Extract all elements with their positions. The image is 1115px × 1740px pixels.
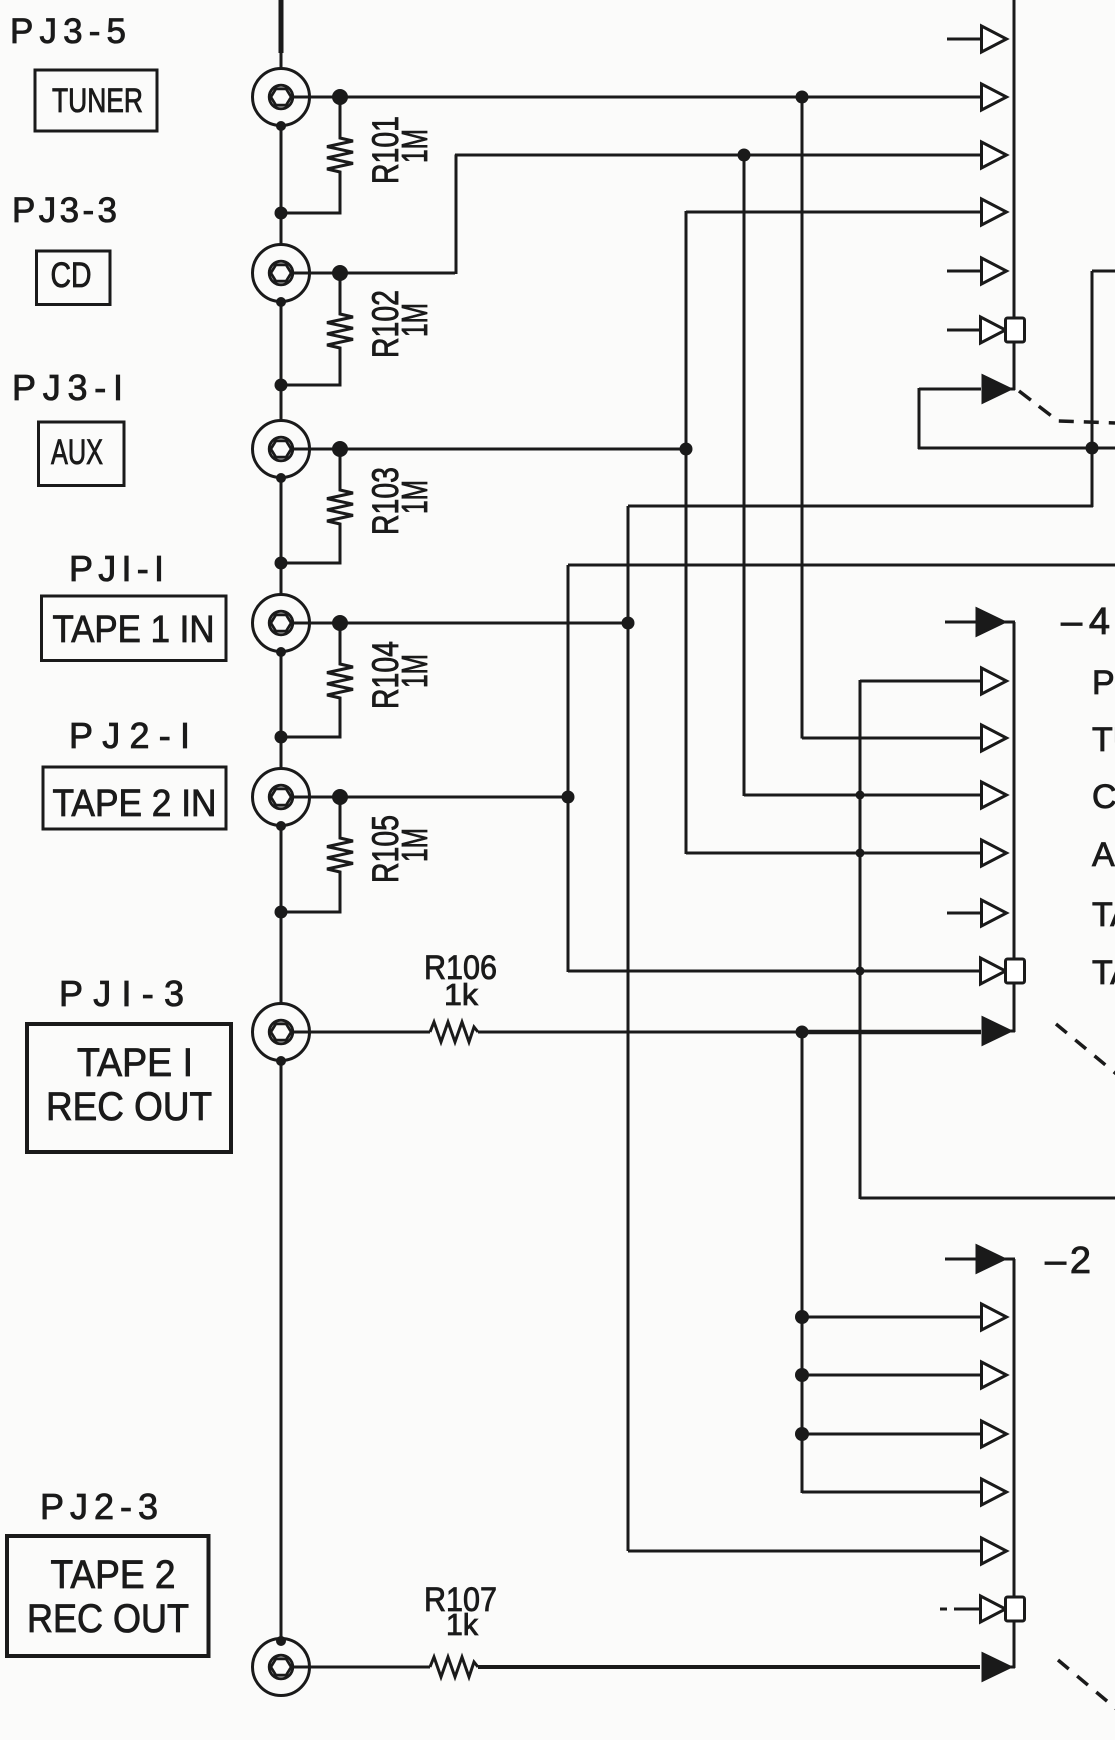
wire AUX hot: [292, 448, 687, 451]
wire AUX riser x=686: [685, 211, 688, 854]
resistor R102 1M: [282, 279, 353, 385]
S1-2 wiper arrow: [983, 1654, 1010, 1680]
junction S1-2 contact 3: [795, 1368, 809, 1382]
RCA jack PJ2-1 TAPE 2 IN: [253, 769, 311, 826]
wire TAPE 1 IN hot: [292, 622, 629, 625]
wire S1-4 wiper stub: [1003, 1030, 1015, 1033]
svg-text:REC OUT: REC OUT: [27, 1597, 189, 1641]
wire S1 wiper loop vertical: [918, 388, 921, 449]
wire TAPE2 to S1-4 square contact: [568, 970, 982, 973]
S1 fixed contact y=271: [982, 258, 1007, 284]
junction CD line: [738, 149, 751, 162]
svg-text:TAPE 2 IN: TAPE 2 IN: [53, 783, 217, 825]
S1-4 wiper arrow: [983, 1018, 1010, 1044]
wire CD riser x=744: [743, 154, 746, 796]
box AUX: [39, 422, 125, 486]
svg-text:PHONO: PHONO: [1092, 664, 1115, 702]
svg-text:1M: 1M: [394, 654, 435, 688]
svg-text:1k: 1k: [444, 977, 479, 1012]
ground bus segment: [280, 826, 283, 1004]
junction record bus: [796, 1026, 809, 1039]
wire CD hot: [292, 272, 455, 275]
switch S1-4 bus to wiper: [1013, 983, 1016, 1032]
RCA jack PJ3-1 AUX: [253, 421, 311, 478]
junction jack PJ3-3 ground: [276, 297, 286, 307]
S1-2 fixed contact y=1317: [982, 1304, 1007, 1330]
svg-text:–2: –2: [1045, 1240, 1091, 1282]
junction jack PJ2-1 ground: [276, 821, 286, 831]
wire TAPE1 REC OUT hot: [292, 1031, 430, 1034]
junction jack PJ2-3 ground: [276, 1636, 286, 1646]
junction x=860 TAPE2 row: [856, 967, 865, 976]
svg-text:PJ3-5: PJ3-5: [10, 12, 126, 51]
svg-text:TUNER: TUNER: [1092, 721, 1115, 759]
svg-text:TUNER: TUNER: [52, 82, 143, 120]
junction TAPE1-IN line: [622, 617, 635, 630]
resistor R106 1k: [430, 1022, 478, 1042]
svg-text:PJI-3: PJI-3: [59, 973, 184, 1014]
junction S1 wiper line: [1086, 442, 1099, 455]
wire y=565 to page edge: [568, 564, 1115, 567]
box TAPE 1 IN: [42, 596, 227, 661]
wire to S1-2 contact 5: [802, 1491, 982, 1494]
ground bus segment: [280, 126, 283, 245]
box CD: [37, 251, 111, 305]
junction TAPE2-IN line: [562, 791, 575, 804]
S1 fixed contact y=155: [982, 142, 1007, 168]
wire short feed dash S1-2 contact 7: [940, 1608, 947, 1611]
box TAPE 2 REC OUT: [7, 1536, 209, 1656]
resistor R107 1k: [430, 1657, 478, 1677]
wire record riser x=802: [801, 1031, 804, 1493]
resistor R104 1M: [282, 629, 353, 737]
wire CD to S1-4 contact: [744, 794, 982, 797]
S1-4 contact square: [1006, 959, 1025, 983]
svg-text:CD: CD: [1092, 778, 1115, 816]
wire TAPE 2 IN hot: [292, 796, 569, 799]
wire short feed S1-2 common: [945, 1258, 977, 1261]
dashed mechanical link S1-4: [1056, 1024, 1115, 1077]
wire short feed S1-2 contact 7: [954, 1608, 980, 1611]
junction jack PJ3-5 ground: [276, 121, 286, 131]
wire to page edge y=271: [1092, 270, 1115, 273]
box TAPE 2 IN: [43, 767, 226, 829]
junction CD hot: [332, 265, 348, 281]
switch S1-4 common bus: [1013, 622, 1016, 959]
junction TAPE2-IN hot: [332, 789, 348, 805]
ground bus segment: [280, 51, 283, 68]
box TUNER: [35, 70, 157, 131]
wire PHONO line to page edge: [860, 1197, 1115, 1200]
wire TUNER riser x=802: [801, 96, 804, 739]
ground bus segment: [280, 1061, 283, 1642]
wire S1-2 common stub: [1002, 1258, 1015, 1261]
junction ground bus R101: [275, 207, 288, 220]
RCA jack PJ1-1 TAPE 1 IN: [253, 595, 311, 652]
S1-4 fixed contact y=913: [982, 900, 1007, 926]
wire AUX to S1 contact: [686, 211, 982, 214]
wire R106 to junction: [478, 1031, 803, 1034]
box TAPE 1 REC OUT: [27, 1024, 231, 1152]
junction jack PJ1-3 ground: [276, 1056, 286, 1066]
wire TUNER to S1-4 contact: [802, 737, 982, 740]
wire R107 to S1-2 wiper (bold): [478, 1665, 980, 1669]
svg-text:TAPE 1: TAPE 1: [1092, 896, 1115, 934]
ground bus (thick top segment): [279, 0, 284, 53]
switch S1 common bus: [1013, 0, 1016, 318]
resistor R101 1M: [282, 103, 353, 213]
wire S1 wiper loop to page edge: [918, 447, 1115, 450]
S1-4 contact square arrow: [981, 958, 1006, 984]
wire short feed S1-4 TAPE1 contact: [947, 912, 982, 915]
S1-2 fixed contact y=1492: [982, 1479, 1007, 1505]
S1 wiper arrow: [983, 376, 1010, 402]
svg-text:PJ3-3: PJ3-3: [12, 191, 117, 230]
junction AUX line: [680, 443, 693, 456]
junction x=860 AUX row: [856, 849, 865, 858]
svg-text:1M: 1M: [394, 129, 435, 163]
S1 contact 6 arrow: [981, 317, 1006, 343]
svg-text:1M: 1M: [394, 303, 435, 337]
svg-text:CD: CD: [51, 256, 92, 295]
RCA jack PJ2-3 TAPE 2 REC OUT: [253, 1639, 311, 1696]
svg-text:TAPE I: TAPE I: [77, 1041, 193, 1085]
S1 fixed contact y=39: [982, 26, 1007, 52]
S1-2 common arrow: [977, 1246, 1004, 1272]
wire PHONO to S1-4 contact: [860, 680, 982, 683]
dashed mechanical link S1-2: [1058, 1660, 1115, 1712]
RCA jack PJ3-5 TUNER: [253, 69, 311, 126]
ground bus segment: [280, 302, 283, 421]
wire S1-2 wiper stub: [1003, 1666, 1015, 1669]
junction S1-2 contact 2: [795, 1310, 809, 1324]
wire TUNER hot (PJ3-5 to S1 contact): [292, 96, 982, 99]
S1-2 fixed contact y=1375: [982, 1362, 1007, 1388]
S1-2 contact square: [1006, 1597, 1025, 1621]
S1 fixed contact y=97: [982, 84, 1007, 110]
S1-4 fixed contact y=795: [982, 782, 1007, 808]
junction jack PJ1-1 ground: [276, 647, 286, 657]
RCA jack PJ3-3 CD: [253, 245, 311, 302]
ground bus segment: [280, 652, 283, 769]
S1-4 fixed contact y=853: [982, 840, 1007, 866]
wire S1 wiper feed: [919, 388, 981, 391]
junction jack PJ3-1 ground: [276, 473, 286, 483]
S1-4 common arrow: [977, 609, 1004, 635]
wire TAPE1-IN riser x=628: [627, 506, 630, 1551]
S1 contact 6 square: [1006, 318, 1025, 342]
wire y=506 cross line: [628, 505, 1093, 508]
switch S1-2 common bus: [1013, 1259, 1016, 1597]
S1-4 fixed contact y=738: [982, 725, 1007, 751]
junction x=860 CD row: [856, 791, 865, 800]
wire short feed S1 contact 6: [947, 329, 982, 332]
S1-4 fixed contact y=681: [982, 668, 1007, 694]
wire TAPE1-IN to S1-2 contact 6: [628, 1550, 982, 1553]
svg-text:REC OUT: REC OUT: [46, 1085, 212, 1129]
switch S1 bus to wiper: [1013, 342, 1016, 390]
svg-text:TAPE 2: TAPE 2: [1092, 954, 1115, 992]
wire short feed S1 contact 1: [947, 38, 982, 41]
svg-text:AUX: AUX: [1092, 836, 1115, 874]
junction ground bus R105: [275, 906, 288, 919]
wire TAPE2-IN riser x=568: [567, 565, 570, 972]
junction TAPE1-IN hot: [332, 615, 348, 631]
svg-text:–4: –4: [1061, 601, 1110, 643]
wire to S1-2 contact 3: [802, 1374, 982, 1377]
junction AUX hot: [332, 441, 348, 457]
svg-text:1M: 1M: [394, 828, 435, 862]
wire short feed S1-4 common: [945, 621, 977, 624]
wire S1-4 common stub: [1002, 621, 1015, 624]
S1-2 fixed contact y=1434: [982, 1421, 1007, 1447]
wire CD to S1 contact: [455, 154, 982, 157]
svg-text:1M: 1M: [394, 480, 435, 514]
svg-text:TAPE 1 IN: TAPE 1 IN: [53, 609, 215, 651]
RCA jack PJ1-3 TAPE 1 REC OUT: [253, 1004, 311, 1061]
junction ground bus R103: [275, 557, 288, 570]
wire CD riser: [455, 155, 458, 275]
junction TUNER hot: [332, 89, 348, 105]
svg-text:TAPE 2: TAPE 2: [51, 1553, 176, 1597]
ground bus segment: [280, 478, 283, 595]
svg-text:PJI-I: PJI-I: [69, 548, 164, 589]
wire to S1-2 contact 2: [802, 1316, 982, 1319]
S1-2 fixed contact y=1551: [982, 1538, 1007, 1564]
junction ground bus R102: [275, 379, 288, 392]
svg-text:PJ2-I: PJ2-I: [69, 715, 190, 756]
resistor R105 1M: [282, 803, 353, 912]
switch S1-2 bus to wiper: [1013, 1621, 1016, 1668]
wire S1 wiper stub: [1003, 388, 1015, 391]
S1 fixed contact y=212: [982, 199, 1007, 225]
wire x=1092 riser: [1091, 271, 1094, 507]
wire S1-4 wiper feed (bold): [802, 1030, 981, 1035]
junction ground bus R104: [275, 731, 288, 744]
wire PHONO riser x=860: [859, 680, 862, 1199]
S1-2 contact square arrow: [981, 1596, 1006, 1622]
svg-text:PJ2-3: PJ2-3: [40, 1486, 158, 1527]
svg-text:AUX: AUX: [51, 433, 103, 472]
junction TUNER line: [796, 91, 809, 104]
resistor R103 1M: [282, 455, 353, 563]
junction S1-2 contact 4: [795, 1427, 809, 1441]
wire AUX to S1-4 contact: [686, 852, 982, 855]
svg-text:PJ3-I: PJ3-I: [12, 367, 123, 408]
wire to S1-2 contact 4: [802, 1433, 982, 1436]
wire TAPE2 REC OUT hot: [292, 1666, 430, 1669]
svg-text:1k: 1k: [446, 1607, 478, 1642]
wire short feed S1 contact 5: [947, 270, 982, 273]
dashed mechanical link S1: [1019, 391, 1115, 423]
